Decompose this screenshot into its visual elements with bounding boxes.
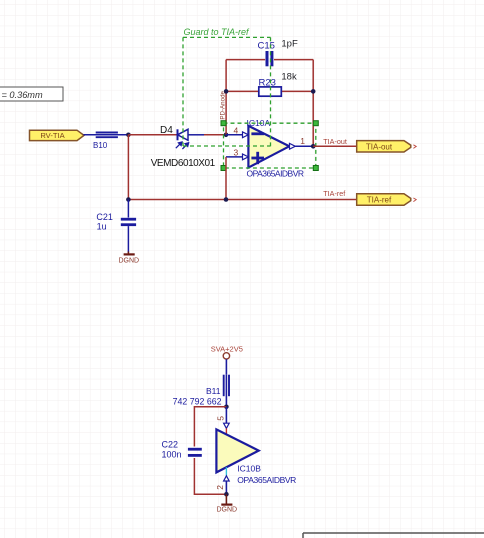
- pin 2 arrow: [224, 476, 230, 481]
- pin 4 wire: [226, 134, 243, 136]
- port TIA-out: [357, 141, 417, 152]
- wire junction down to TIA-ref: [127, 135, 129, 200]
- resistor R23: [226, 72, 313, 97]
- supply SVA+2V5: [211, 344, 243, 374]
- capacitor C15: [226, 39, 313, 67]
- wire junction to diode: [128, 134, 177, 136]
- svg-text:5: 5: [215, 416, 225, 421]
- svg-text:C21: C21: [96, 212, 113, 222]
- guard vertex squares: [221, 121, 318, 171]
- svg-text:OPA365AIDBVR: OPA365AIDBVR: [247, 168, 305, 178]
- svg-text:742 792 662: 742 792 662: [173, 396, 222, 406]
- ferrite bead B10: [84, 133, 129, 151]
- pin 2 cyan stub: [225, 467, 227, 475]
- port TIA-ref: [357, 194, 417, 205]
- svg-text:TIA-out: TIA-out: [323, 137, 347, 146]
- svg-text:Guard to TIA-ref: Guard to TIA-ref: [184, 27, 251, 37]
- svg-text:TIA-ref: TIA-ref: [323, 189, 345, 198]
- port RV-TIA: [30, 130, 85, 140]
- svg-text:2: 2: [215, 485, 225, 490]
- wire TIA-ref: [128, 199, 356, 201]
- svg-text:100n: 100n: [162, 449, 182, 459]
- svg-text:PD-Anode: PD-Anode: [220, 90, 227, 119]
- capacitor C21: [96, 200, 136, 253]
- svg-text:= 0.36mm: = 0.36mm: [2, 90, 43, 100]
- junction node R23 right: [311, 89, 316, 94]
- svg-text:18k: 18k: [281, 72, 297, 83]
- svg-text:4: 4: [234, 125, 239, 135]
- svg-text:DGND: DGND: [118, 257, 139, 264]
- wire to C22 top: [194, 407, 226, 447]
- svg-text:DGND: DGND: [216, 507, 237, 514]
- junction node DGND (IC10B): [224, 492, 229, 497]
- svg-text:1pF: 1pF: [281, 39, 298, 50]
- pin 5 stub: [225, 428, 227, 434]
- pin 2 wire: [225, 481, 227, 494]
- svg-text:1: 1: [300, 136, 305, 146]
- wire pin3 down to TIA-ref: [225, 157, 227, 200]
- pin 4 arrow: [243, 132, 249, 138]
- svg-text:VEMD6010X01: VEMD6010X01: [151, 158, 216, 169]
- junction node B11/C22: [224, 405, 229, 410]
- wire B11 junction to pin5: [225, 407, 227, 424]
- svg-text:3: 3: [234, 148, 239, 158]
- pin 3 arrow: [243, 154, 249, 160]
- op-amp IC10B: [216, 429, 296, 484]
- note box 0.36mm: [0, 87, 63, 101]
- wire feedback right vertical: [312, 60, 314, 147]
- junction node TIA-ref/C21: [126, 197, 131, 202]
- svg-text:TIA-ref: TIA-ref: [367, 196, 392, 205]
- svg-text:D4: D4: [160, 125, 173, 136]
- pin 1 wire: [295, 145, 313, 147]
- junction node R23 left: [224, 89, 229, 94]
- pin 1 arrow: [290, 143, 296, 149]
- ferrite bead B11: [173, 375, 229, 407]
- photodiode D4: [151, 125, 226, 169]
- guard dashed outline to label: [183, 37, 271, 146]
- svg-text:RV-TIA: RV-TIA: [40, 131, 65, 140]
- ground DGND (IC10B): [216, 494, 237, 513]
- wire TIA-out: [313, 145, 357, 147]
- pin 5 arrow: [224, 423, 230, 428]
- junction node output: [311, 144, 316, 149]
- svg-text:C22: C22: [162, 440, 179, 450]
- svg-text:TIA-out: TIA-out: [366, 142, 393, 151]
- guard box around op-amp: [224, 123, 316, 168]
- svg-text:1u: 1u: [97, 222, 107, 232]
- op-amp IC10A: [247, 118, 305, 178]
- pin 3 wire: [226, 156, 243, 158]
- wire feedback left vertical: [225, 60, 227, 135]
- capacitor C22: [162, 440, 202, 460]
- svg-text:IC10B: IC10B: [237, 464, 261, 474]
- svg-text:C15: C15: [258, 40, 275, 51]
- junction node pin4/feedback/anode: [224, 133, 229, 138]
- wire C22 bottom: [194, 458, 226, 494]
- svg-text:OPA365AIDBVR: OPA365AIDBVR: [237, 475, 296, 485]
- frame corner box bottom-right: [303, 533, 484, 538]
- junction node B10/diode/C21: [126, 133, 131, 138]
- svg-text:R23: R23: [259, 78, 276, 89]
- junction node TIA-ref/pin3: [224, 197, 229, 202]
- svg-text:B10: B10: [93, 141, 108, 150]
- ground DGND (C21): [118, 252, 139, 265]
- svg-text:B11: B11: [206, 386, 221, 396]
